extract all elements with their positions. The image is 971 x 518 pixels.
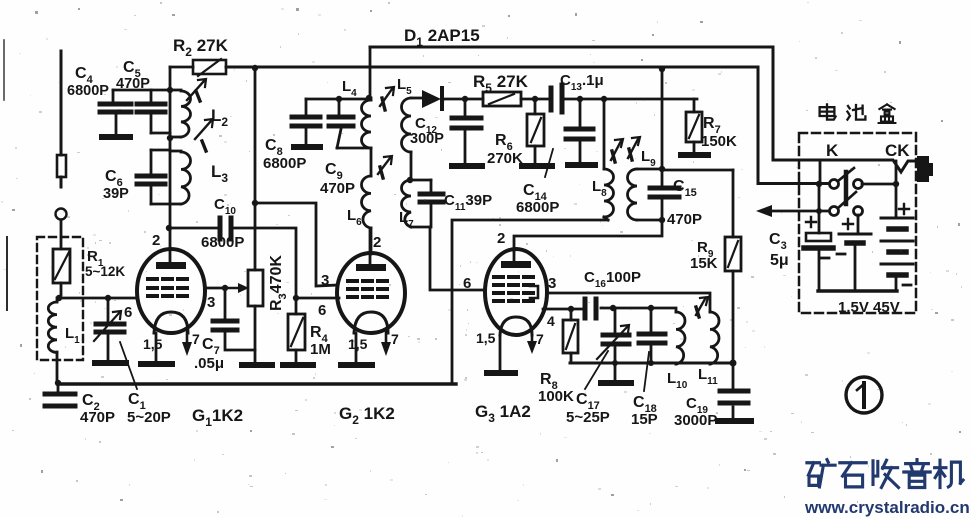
- node: L4 top: [366, 95, 372, 101]
- svg-text:270K: 270K: [487, 150, 523, 167]
- svg-text:7: 7: [192, 331, 200, 347]
- node: bottom rail left end: [55, 380, 61, 386]
- tuning arrow at L3: [195, 119, 213, 151]
- capacitor C5: [137, 90, 170, 133]
- node: C9 tap: [336, 96, 342, 102]
- inductor L7: [402, 180, 431, 227]
- svg-text:2: 2: [497, 230, 505, 247]
- glyph 矿: [807, 460, 835, 487]
- wire: battery bottom rail: [818, 289, 897, 292]
- node: 45V feed: [893, 181, 899, 187]
- node: C19 junction: [730, 360, 737, 367]
- arrow into R3: [225, 283, 249, 293]
- resistor R6: [527, 99, 544, 162]
- svg-text:7: 7: [391, 331, 399, 347]
- glyph 音: [904, 460, 930, 488]
- node: C18 on rail: [648, 360, 654, 366]
- svg-text:3: 3: [207, 294, 215, 311]
- pointer line from C14 label: [545, 149, 553, 177]
- wire: main ground rail: [58, 382, 456, 385]
- svg-text:39P: 39P: [103, 186, 129, 202]
- resistor R3: [248, 68, 263, 362]
- svg-text:1,5: 1,5: [143, 336, 163, 352]
- svg-text:7: 7: [536, 331, 544, 347]
- tube G1 cathode: [154, 312, 188, 333]
- scan edge line top left: [3, 40, 5, 100]
- node: R1/L1 junction: [56, 295, 62, 301]
- node: C14 tap: [577, 96, 583, 102]
- ground under R4: [283, 362, 313, 368]
- capacitor C6: [137, 150, 170, 204]
- tube G1 cathode lead pins 1,5: [155, 333, 158, 361]
- capacitor C12: [452, 99, 482, 166]
- svg-text:3: 3: [321, 272, 329, 289]
- tube G2 cathode: [354, 312, 388, 333]
- wire: L7 top to C11: [411, 179, 431, 182]
- svg-text:K: K: [826, 141, 839, 160]
- capacitor C10: [169, 218, 296, 298]
- capacitor C16: [585, 299, 676, 318]
- ground under G1: [141, 361, 172, 367]
- svg-text:1,5: 1,5: [476, 330, 496, 346]
- wire: jack line to switch link: [819, 161, 822, 184]
- dashed box around R1/L1: [37, 237, 83, 360]
- antenna lead-in wire: [60, 51, 63, 155]
- tube G3 cathode: [500, 317, 532, 335]
- node: detector output: [462, 96, 468, 102]
- capacitor C2: [45, 385, 75, 406]
- glyph 收: [873, 460, 899, 487]
- ground under R3: [242, 362, 272, 368]
- svg-text:1.5V 45V: 1.5V 45V: [838, 299, 900, 316]
- svg-text:150K: 150K: [701, 133, 737, 150]
- wire: coupling from R3 node to G2 grid: [255, 203, 338, 286]
- svg-text:470P: 470P: [667, 211, 702, 228]
- inductor L11: [710, 312, 719, 364]
- battery 45V: [881, 204, 913, 291]
- resistor R4: [288, 298, 305, 362]
- node: pin3/C7 junction: [222, 285, 228, 291]
- pointer line from C1 label: [120, 342, 137, 389]
- capacitor C1 (trimmer): [94, 298, 124, 359]
- node: L2/L3 junction: [167, 135, 173, 141]
- tube G3 plate: [501, 251, 531, 268]
- ground under G2: [341, 362, 372, 368]
- inductor L6: [362, 176, 372, 254]
- resistor R2: [170, 59, 226, 76]
- capacitor C18: [639, 308, 665, 363]
- inductor L9: [628, 169, 662, 220]
- wire: second B+ bus with R2, from oscillator tank to switch K: [226, 67, 828, 184]
- capacitor C19: [718, 363, 751, 421]
- wire: switch to 45V: [862, 183, 896, 186]
- svg-text:CK: CK: [885, 141, 910, 160]
- capacitor C11: [420, 180, 443, 227]
- svg-text:6800P: 6800P: [67, 83, 109, 99]
- tube G2 grids: [348, 281, 387, 297]
- svg-text:6800P: 6800P: [263, 155, 306, 172]
- wire: right ground rail: [570, 362, 733, 365]
- wire: to G2 pin 6: [296, 297, 339, 300]
- glyph 机: [935, 460, 964, 487]
- node: bus2 / R3 junction: [252, 65, 258, 71]
- tube G2 envelope: [337, 253, 405, 333]
- capacitor C9: [329, 99, 371, 148]
- wire: G3 pin 3 to L11: [547, 293, 710, 312]
- tuning arrow at L2: [187, 79, 206, 101]
- wire: G1 plate output pin 3: [205, 287, 225, 290]
- node: L8 tap: [601, 96, 607, 102]
- node: C18 tap: [648, 305, 654, 311]
- tube G3 grids: [494, 277, 533, 301]
- antenna terminal circle: [56, 209, 67, 220]
- glyph 电: [820, 104, 836, 119]
- capacitor C14: [566, 99, 595, 165]
- pointer line from C17 label: [585, 351, 608, 389]
- tube G1 envelope: [137, 249, 205, 333]
- tube G3 pin 7 arrow: [527, 335, 537, 354]
- node: G1 pin2 / C10 junction: [166, 225, 172, 231]
- wire: bus corner down to L2 tank top node: [169, 67, 172, 90]
- wire: tank4 to R9: [662, 169, 733, 172]
- inductor L4: [362, 98, 372, 176]
- resistor R9: [725, 170, 741, 363]
- tube G3 envelope: [485, 249, 547, 335]
- earphone jack CK: [917, 156, 933, 182]
- watermark site name glyphs: [807, 460, 963, 488]
- switch K lever: [838, 168, 856, 208]
- tube G2 plate: [356, 228, 386, 271]
- node: L7 top / C11: [407, 177, 413, 183]
- resistor R7: [686, 99, 702, 152]
- tube G1 grids: [148, 279, 187, 296]
- battery box dashed outline: [799, 133, 916, 313]
- tuning arrow at L11: [696, 297, 708, 317]
- svg-text:1,5: 1,5: [348, 336, 368, 352]
- tuning arrows at L9: [611, 137, 640, 162]
- wire: C11/L7 return to G3 grid: [430, 227, 485, 290]
- tube G1 pin 7 arrow: [182, 329, 192, 356]
- AVC arrow to circuit: [756, 205, 829, 217]
- svg-text:6800P: 6800P: [516, 199, 559, 216]
- svg-text:15P: 15P: [631, 411, 658, 428]
- resistor R1 (variable): [53, 249, 70, 295]
- ground under C1: [95, 360, 126, 366]
- svg-text:6: 6: [318, 302, 326, 319]
- glyph 盒: [879, 104, 896, 123]
- glyph 石: [840, 463, 866, 487]
- node: R8 junction: [568, 306, 574, 312]
- svg-text:.05μ: .05μ: [194, 355, 224, 372]
- capacitor C3 electrolytic: [804, 188, 833, 291]
- diode D1: [422, 88, 465, 109]
- wire: G1 grid line: [59, 297, 137, 300]
- node: C17 on rail: [612, 360, 618, 366]
- resistor R5: [465, 92, 551, 106]
- wire: G3 plate pin2 to tank4 bottom: [514, 220, 662, 251]
- wire: jack to battery plus: [895, 161, 898, 217]
- capacitor C7: [213, 288, 255, 350]
- tuning arrow at L5: [380, 87, 394, 110]
- battery box caption glyphs: [820, 104, 896, 123]
- ground under G3: [487, 370, 515, 376]
- capacitor C4: [100, 90, 131, 137]
- node: tank4 bottom: [659, 217, 665, 223]
- inductor L3: [170, 151, 191, 204]
- wire: antenna coupling line to tank1: [113, 89, 170, 92]
- node: C1 tap: [105, 295, 111, 301]
- antenna plug: [57, 155, 66, 177]
- svg-text:www.crystalradio.cn: www.crystalradio.cn: [804, 498, 970, 517]
- svg-text:5μ: 5μ: [770, 252, 789, 269]
- node: switch feed: [816, 181, 822, 187]
- svg-text:4: 4: [547, 313, 555, 329]
- tuning arrow at L6/L7: [378, 156, 392, 178]
- capacitor C15: [650, 169, 679, 220]
- capacitor C13: [551, 85, 697, 112]
- svg-text:6: 6: [124, 304, 132, 321]
- wire: L5 top to diode: [411, 97, 421, 100]
- wire: B+ feed to tank4: [661, 68, 664, 169]
- tube G1 plate: [156, 229, 186, 269]
- tube G2 pin 7 arrow: [381, 329, 391, 356]
- node: tank4 top: [659, 166, 665, 172]
- svg-text:2: 2: [152, 232, 160, 249]
- capacitor C8: [292, 99, 320, 147]
- svg-text:5~20P: 5~20P: [127, 409, 171, 426]
- inductor L1: [48, 298, 57, 383]
- svg-text:15K: 15K: [690, 255, 718, 272]
- inductor L10: [676, 312, 685, 364]
- wire: B+ top bus from L4 primary to battery jack: [370, 47, 917, 172]
- tube G3 grid hook: [530, 286, 538, 298]
- svg-text:2: 2: [373, 234, 381, 251]
- svg-text:5~25P: 5~25P: [566, 409, 610, 426]
- svg-text:1M: 1M: [310, 341, 331, 358]
- wire: G3 pin 4 line: [543, 308, 585, 311]
- inductor L5: [402, 98, 412, 180]
- svg-text:100K: 100K: [538, 388, 574, 405]
- watermark url: [804, 498, 970, 517]
- node: bus2 corner / tank1 top: [167, 87, 173, 93]
- svg-text:470P: 470P: [320, 180, 355, 197]
- pointer line from C18 label: [644, 352, 649, 391]
- svg-text:470P: 470P: [80, 409, 115, 426]
- svg-text:470P: 470P: [116, 76, 150, 92]
- svg-text:6: 6: [463, 275, 471, 292]
- node: R5/R6 junction: [532, 96, 538, 102]
- scan edge line bottom left: [6, 237, 8, 310]
- svg-text:3000P: 3000P: [674, 412, 717, 429]
- svg-text:300P: 300P: [410, 131, 444, 147]
- capacitor C17 (trimmer): [597, 308, 629, 363]
- ground under C17: [601, 363, 631, 383]
- tube G2 cathode pins 1,5: [355, 333, 358, 362]
- wire: vertical from top bus down to L4 top node: [369, 47, 372, 98]
- ground under R7: [681, 152, 708, 158]
- wire: tank vertical x=170 (L2/L3 series chain to G1 pin2): [169, 90, 172, 229]
- tube G3 cathode pins 1,5: [499, 335, 502, 370]
- page number circle 1: [846, 377, 882, 413]
- svg-text:6800P: 6800P: [201, 234, 244, 251]
- node: C3 tap: [816, 208, 822, 214]
- switch K contacts: [830, 180, 863, 216]
- battery 1.5V cell: [837, 215, 871, 291]
- svg-text:3: 3: [548, 275, 556, 292]
- glyph 池: [847, 105, 865, 120]
- node: R3 top coupling junction: [252, 200, 258, 206]
- inductor L2: [170, 90, 191, 137]
- node: bus feed: [659, 66, 665, 72]
- node: R4 / G2 pin6 junction: [293, 295, 299, 301]
- svg-text:5~12K: 5~12K: [85, 264, 125, 279]
- ground under R6: [522, 163, 552, 169]
- wire: L8 return to ground rail: [452, 220, 608, 384]
- resistor R8: [563, 309, 578, 363]
- node: C17 tap: [610, 305, 616, 311]
- wire: tank3 top line to C8/C9: [306, 98, 369, 101]
- inductor L8: [604, 99, 614, 220]
